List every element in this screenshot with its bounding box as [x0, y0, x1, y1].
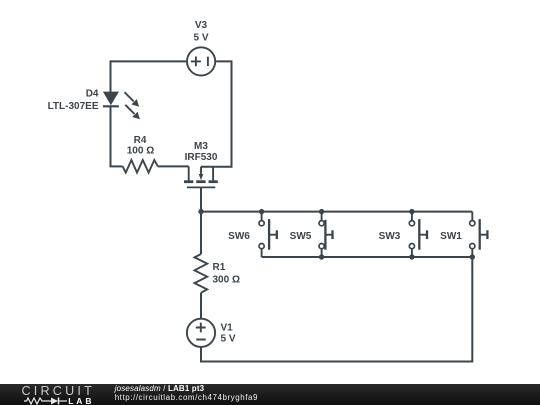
LED D4 — [48, 89, 140, 120]
wire R4 left — [110, 165, 123, 167]
voltage source V3 — [187, 20, 215, 76]
switch SW5 — [290, 212, 333, 257]
wire left vertical lower — [110, 106, 112, 166]
wire bottom rail — [262, 256, 473, 258]
wire M3 gate lead — [200, 187, 202, 211]
wire V1 bottom — [201, 257, 472, 362]
resistor R4 — [123, 135, 158, 173]
node junction gate/R1 — [198, 209, 203, 214]
wire top rail — [200, 211, 472, 213]
svg-text:100 Ω: 100 Ω — [127, 146, 154, 157]
CircuitLab logo LAB — [68, 396, 94, 405]
svg-text:SW6: SW6 — [228, 231, 250, 242]
svg-text:V3: V3 — [195, 20, 208, 31]
node junction SW5 bottom — [319, 254, 324, 259]
svg-text:LTL-307EE: LTL-307EE — [48, 101, 99, 112]
svg-text:IRF530: IRF530 — [185, 152, 218, 163]
wire R4 right to M3 — [158, 165, 189, 167]
voltage source V1 — [187, 319, 236, 347]
svg-text:5 V: 5 V — [193, 33, 208, 44]
svg-text:SW5: SW5 — [290, 231, 312, 242]
node junction SW1 bottom — [470, 254, 475, 259]
node junction SW5 top — [319, 209, 324, 214]
svg-text:SW1: SW1 — [440, 231, 462, 242]
wire left vertical upper — [110, 60, 112, 92]
switch SW1 — [440, 212, 487, 257]
wire V3 right to corner — [201, 61, 232, 166]
wire top left — [111, 60, 187, 62]
footer bar — [0, 384, 540, 405]
CircuitLab logo symbol — [24, 396, 70, 405]
footer url — [115, 394, 258, 402]
node junction SW3 top — [409, 209, 414, 214]
svg-text:R4: R4 — [134, 135, 147, 146]
footer title — [115, 385, 205, 393]
CircuitLab logo CIRCUIT — [22, 384, 95, 398]
svg-text:5 V: 5 V — [221, 333, 236, 344]
svg-text:V1: V1 — [221, 322, 234, 333]
switch SW3 — [379, 212, 427, 257]
svg-text:300 Ω: 300 Ω — [213, 275, 240, 286]
svg-text:SW3: SW3 — [379, 231, 401, 242]
node junction SW3 bottom — [409, 254, 414, 259]
svg-text:R1: R1 — [213, 262, 226, 273]
node junction SW6 top — [259, 209, 264, 214]
wire R1 bottom lead — [200, 293, 202, 319]
svg-text:D4: D4 — [86, 89, 99, 100]
svg-text:M3: M3 — [194, 141, 208, 152]
resistor R1 — [195, 254, 240, 293]
wire R1 top lead — [200, 212, 202, 254]
transistor M3 — [184, 141, 218, 188]
switch SW6 — [228, 212, 277, 257]
